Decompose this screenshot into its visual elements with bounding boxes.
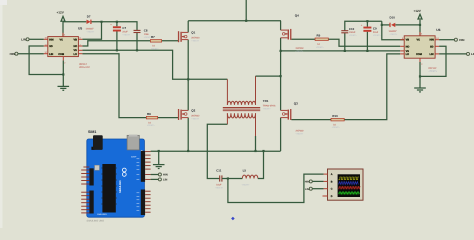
node ground stem junction — [158, 150, 160, 152]
ground arduino — [153, 165, 165, 169]
wire U6.COM down to ground — [419, 62, 421, 88]
wire R7 to Q1 gate — [162, 40, 178, 42]
wire C7 top stub — [116, 22, 118, 27]
svg-text:D: D — [331, 195, 333, 198]
ground U6 — [414, 88, 426, 92]
svg-text:HIN: HIN — [430, 39, 435, 42]
node LIN terminal left — [21, 38, 29, 42]
svg-text:SIMULINO: SIMULINO — [119, 180, 122, 193]
wire secondary right lead — [255, 113, 257, 136]
power +12V U6 — [418, 14, 422, 36]
wire U5.COM down to ground — [62, 60, 64, 86]
svg-text:R8: R8 — [147, 112, 151, 116]
dip chip ATmega — [102, 164, 115, 213]
svg-text:SD: SD — [430, 45, 434, 48]
svg-text:AREF: AREF — [131, 155, 137, 158]
svg-text:D10: D10 — [390, 16, 396, 20]
header right lower — [141, 190, 145, 216]
svg-text:SIM1: SIM1 — [88, 130, 96, 134]
capacitor C9 22uF electrolytic — [361, 24, 382, 37]
reset button — [95, 165, 100, 170]
svg-text:<TEXT>: <TEXT> — [332, 126, 341, 129]
trace D green — [339, 192, 360, 194]
wire C9 top stub — [366, 21, 368, 26]
node C7 bottom junction — [116, 49, 118, 51]
pin U6.LO — [400, 53, 404, 55]
node VS-midpoint junction — [187, 78, 189, 80]
node C9 bottom junction — [366, 50, 368, 52]
node LIN terminal scope — [305, 187, 312, 191]
svg-text:HO: HO — [74, 45, 78, 48]
wire arduino ground stem — [158, 151, 160, 164]
svg-text:C10: C10 — [349, 27, 355, 31]
wire L5 right to ground rail — [258, 151, 264, 179]
svg-text:+12V: +12V — [57, 11, 65, 15]
wire C11 to L5 — [222, 178, 242, 180]
svg-text:2N7002: 2N7002 — [296, 47, 305, 50]
svg-text:LIN: LIN — [430, 53, 434, 56]
pin scope A — [324, 173, 328, 175]
wire Q4 drain to +12 rail — [280, 21, 282, 30]
node primary right junction — [280, 75, 282, 77]
primary coil — [227, 101, 255, 105]
pin label ticks — [137, 159, 140, 211]
usb connector — [127, 135, 139, 150]
trace A yellow — [339, 177, 360, 180]
svg-text:HIN: HIN — [305, 181, 310, 184]
pin scope C — [324, 188, 328, 190]
svg-text:VB: VB — [74, 38, 78, 41]
svg-text:<TEXT>: <TEXT> — [191, 117, 200, 120]
wire U5.SD to COM node — [29, 46, 63, 75]
wire Q1 source to Q2 drain — [187, 40, 189, 111]
svg-text:<TEXT>: <TEXT> — [316, 46, 325, 49]
pin U6.HIN — [435, 39, 439, 41]
svg-text:C: C — [331, 188, 333, 191]
wire C7 bottom stub — [116, 31, 118, 50]
arduino SIM1 — [81, 130, 150, 222]
wire +12V top rail — [188, 20, 281, 22]
transistor Q3 2N7002 — [281, 102, 305, 136]
wire C8 bottom stub — [136, 33, 138, 51]
svg-text:22uF: 22uF — [122, 31, 128, 34]
pin U5.VB — [78, 38, 82, 40]
svg-text:<TEXT>: <TEXT> — [296, 133, 305, 136]
node HIN terminal arduino — [158, 173, 167, 177]
resistor R8 10 — [146, 112, 157, 127]
node C9 top junction — [366, 20, 368, 22]
wire arduino HIN pin — [151, 174, 159, 176]
svg-text:100nF: 100nF — [349, 31, 356, 34]
pin U6.VC — [419, 32, 421, 36]
diode D10 1N4007 — [389, 16, 399, 36]
node Q2 source-ground junction — [187, 150, 189, 152]
wire C10 bottom stub — [344, 33, 346, 51]
svg-text:B: B — [331, 180, 333, 183]
resistor R7 10 — [150, 35, 161, 50]
svg-text:<TEXT>: <TEXT> — [390, 33, 399, 36]
wire D7 cathode to C8 corner — [92, 22, 138, 30]
wire U6.VS rail — [281, 50, 401, 52]
pin scope B — [324, 180, 328, 182]
wire secondary left to C11 loop — [207, 124, 227, 178]
svg-text:TRAN-2P2S: TRAN-2P2S — [263, 104, 276, 107]
svg-text:<TEXT>: <TEXT> — [429, 70, 438, 73]
pin U5.COM — [62, 57, 64, 61]
capacitor C8 100n — [134, 29, 153, 39]
inductor L5 — [242, 169, 258, 187]
node D7-VB junction — [100, 21, 102, 23]
node C8 bottom junction — [136, 49, 138, 51]
ground rail bottom — [151, 150, 281, 152]
core — [223, 108, 260, 111]
svg-text:+12V: +12V — [414, 9, 422, 13]
svg-text:VC: VC — [417, 39, 421, 42]
wire C9 bottom stub — [366, 32, 368, 51]
header left upper — [89, 168, 93, 185]
pin U6.LIN — [435, 53, 439, 55]
node LIN terminal arduino — [158, 178, 167, 182]
wire midpoint to primary right lead — [256, 75, 281, 77]
node HIN terminal right — [454, 38, 464, 42]
wire secondary left lead — [226, 113, 228, 124]
pin U5.VS — [78, 49, 82, 51]
svg-text:<TEXT>: <TEXT> — [349, 34, 358, 37]
capacitor C7 22uF electrolytic — [110, 24, 131, 37]
svg-text:COM: COM — [416, 53, 422, 56]
pin U6.VS — [400, 50, 404, 52]
capacitor C11 — [215, 169, 224, 190]
svg-text:HIN: HIN — [459, 38, 464, 42]
wire U6.LIN to terminal — [439, 53, 466, 55]
svg-text:SIMULINO UNO: SIMULINO UNO — [87, 220, 105, 223]
arduino logo — [122, 168, 126, 172]
trace C red — [339, 186, 361, 189]
svg-text:<TEXT>: <TEXT> — [191, 39, 200, 42]
node L5 right junction — [262, 150, 264, 152]
wire primary left lead — [226, 79, 228, 105]
wire scope C terminal — [312, 188, 323, 190]
svg-text:LO: LO — [74, 53, 78, 56]
svg-text:<TEXT>: <TEXT> — [122, 34, 131, 37]
svg-text:2N7002: 2N7002 — [191, 114, 200, 117]
svg-text:U5: U5 — [78, 26, 82, 30]
secondary coil — [227, 113, 255, 118]
pin scope D — [323, 195, 328, 197]
svg-text:10uF: 10uF — [216, 184, 222, 187]
svg-text:<TEXT>: <TEXT> — [373, 34, 382, 37]
svg-text:LO: LO — [406, 53, 410, 56]
wire R10 to U6.LO — [344, 54, 400, 120]
svg-text:Q2: Q2 — [191, 109, 195, 113]
wire Q4 gate to R9 — [291, 38, 315, 40]
header left lower — [89, 191, 93, 214]
svg-text:C9: C9 — [373, 26, 377, 30]
trace B blue — [339, 182, 359, 185]
wire D10 anode to +12 stem — [395, 24, 420, 26]
wire VB drop — [82, 22, 101, 40]
origin marker — [231, 217, 235, 221]
wire R9 to U6.HO — [328, 39, 400, 46]
transistor Q4 2N7002 — [281, 14, 305, 53]
node supply drop junction — [245, 20, 247, 22]
wire +12V rail to D7 anode — [63, 21, 86, 23]
svg-text:R7: R7 — [151, 35, 155, 39]
wire D10 cathode to VB drop — [382, 24, 390, 26]
wire probe to scope A — [228, 174, 324, 202]
diode D7 1N4007 — [86, 14, 96, 33]
svg-text:LIN: LIN — [49, 53, 53, 56]
transistor Q2 2N7002 — [178, 109, 200, 121]
svg-text:A: A — [331, 173, 333, 176]
svg-text:C7: C7 — [122, 26, 126, 30]
pin U5.HIN — [44, 38, 48, 40]
transistor Q1 2N7000 — [178, 31, 200, 43]
svg-text:TR1: TR1 — [263, 99, 269, 103]
wire U5.LO down to R8 — [82, 54, 146, 118]
svg-text:<TEXT>: <TEXT> — [263, 108, 272, 111]
wire C10 corner to top rail — [345, 21, 382, 30]
svg-text:1N4007: 1N4007 — [389, 30, 398, 33]
pin U5.LO — [78, 53, 82, 55]
transformer TR1 TRAN-2P2S — [223, 76, 276, 136]
svg-text:U6: U6 — [436, 28, 440, 32]
svg-text:Q4: Q4 — [295, 14, 299, 18]
wire Q2 source to ground rail — [187, 118, 189, 151]
wire Q3 gate to R10 — [291, 119, 331, 121]
svg-text:IR2112: IR2112 — [79, 63, 87, 66]
pin U5.SD — [44, 45, 48, 47]
svg-text:R10: R10 — [332, 114, 338, 118]
svg-text:HO: HO — [406, 45, 410, 48]
board — [87, 139, 145, 217]
pin U6.VB — [400, 39, 404, 41]
node +12 branch junction U6 — [419, 24, 421, 26]
ground U5 — [58, 86, 70, 90]
svg-text:R9: R9 — [317, 33, 321, 37]
wire VB drop U6 — [382, 21, 404, 40]
svg-text:LIN: LIN — [163, 179, 167, 182]
node HIN terminal left — [10, 52, 18, 56]
wire Q1 drain to +12 rail — [187, 21, 189, 33]
header right upper — [141, 151, 145, 182]
node D10 junction — [381, 24, 383, 26]
svg-text:C8: C8 — [144, 29, 148, 33]
op-amp-driver U5 IR2112 body — [44, 26, 91, 69]
svg-text:2N7002: 2N7002 — [296, 130, 305, 133]
pin U5.VC — [62, 33, 64, 37]
wire U5.HO to R7 — [82, 41, 150, 46]
svg-text:100n: 100n — [144, 33, 150, 36]
svg-text:HIN: HIN — [10, 52, 15, 56]
node HIN terminal scope — [305, 180, 313, 184]
wire R8 to Q2 gate — [158, 117, 178, 119]
svg-text:C11: C11 — [216, 169, 222, 173]
svg-text:Q1: Q1 — [191, 31, 195, 35]
led dot — [141, 150, 143, 152]
wire Q3 source to ground rail — [280, 118, 282, 151]
svg-text:HIN: HIN — [49, 38, 54, 41]
capacitor C10 100nF — [341, 27, 357, 37]
svg-text:22uF: 22uF — [373, 31, 379, 34]
svg-text:VC: VC — [60, 38, 64, 41]
svg-text:SIMULINO: SIMULINO — [97, 213, 107, 216]
svg-text:COM: COM — [58, 53, 64, 56]
svg-text:VDD+VCC: VDD+VCC — [79, 66, 90, 69]
pin U6.COM — [419, 58, 421, 62]
svg-text:VS: VS — [74, 49, 78, 52]
svg-text:IR2112: IR2112 — [429, 67, 437, 70]
wire LIN terminal to U5.HIN — [29, 38, 44, 40]
svg-text:2N7000: 2N7000 — [191, 36, 200, 39]
wire supply drop from sheet top — [245, 0, 247, 21]
svg-text:<TEXT>: <TEXT> — [242, 184, 251, 187]
op-amp-driver U6 IR2112 body — [400, 28, 440, 73]
wire Q4 source to Q3 drain — [280, 38, 282, 111]
svg-text:LIN: LIN — [21, 38, 26, 42]
pin U6.HO — [400, 45, 404, 47]
power +12V U5 — [61, 16, 65, 36]
wire primary right lead — [255, 76, 257, 105]
wire U6.HIN to terminal — [439, 39, 454, 41]
node SD-COM junction — [62, 73, 64, 75]
svg-text:LIN: LIN — [305, 188, 309, 191]
node SD-COM junction U6 — [419, 75, 421, 77]
svg-text:<TEXT>: <TEXT> — [147, 124, 156, 127]
pin U6.SD — [435, 45, 439, 47]
svg-text:<TEXT>: <TEXT> — [151, 47, 160, 50]
resistor R9 10 — [315, 33, 328, 48]
svg-text:VB: VB — [406, 39, 410, 42]
svg-text:HIN: HIN — [163, 174, 168, 177]
power jack — [91, 147, 94, 150]
oscilloscope — [323, 169, 364, 200]
svg-text:<TEXT>: <TEXT> — [215, 186, 224, 189]
wire midpoint to primary left lead — [188, 78, 227, 80]
resistor R10 10 — [331, 114, 344, 129]
svg-text:<TEXT>: <TEXT> — [87, 30, 96, 33]
node C7 top junction — [116, 21, 118, 23]
node LIN terminal right — [467, 52, 474, 56]
wire U6.SD to COM node — [420, 46, 446, 76]
svg-text:SD: SD — [49, 45, 53, 48]
svg-text:Q3: Q3 — [294, 102, 298, 106]
svg-text:<TEXT>: <TEXT> — [296, 50, 305, 53]
node probe junction — [227, 177, 229, 179]
svg-text:L5: L5 — [243, 169, 247, 173]
wire scope B terminal — [312, 180, 323, 182]
svg-text:D7: D7 — [87, 14, 91, 18]
pin U5.LIN — [44, 53, 48, 55]
node C10 bottom junction — [344, 50, 346, 52]
wire U5.VS rail to half-bridge midpoint — [82, 50, 188, 79]
node secondary right junction — [254, 150, 256, 152]
wire HIN terminal to U5.LIN — [18, 53, 44, 55]
node VS rail junction — [280, 50, 282, 52]
wire arduino LIN pin — [151, 178, 159, 180]
wire secondary right lead to ground rail — [255, 136, 257, 151]
pin U5.HO — [78, 45, 82, 47]
svg-text:1N4007: 1N4007 — [86, 28, 95, 31]
